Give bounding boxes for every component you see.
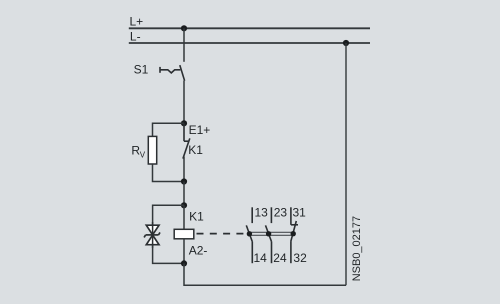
svg-text:NSB0_02177: NSB0_02177 [351, 216, 363, 281]
wire: suppressor branch bottom [153, 245, 184, 264]
svg-text:13: 13 [255, 206, 269, 220]
wire: contact to node [183, 157, 185, 182]
wire: suppressor branch top [153, 205, 184, 225]
wire: node to coil [183, 205, 185, 229]
contact K1 (NC break contact between E1+ and node) [183, 123, 190, 158]
svg-text:14: 14 [254, 251, 268, 265]
wire: coil to bottom node [183, 239, 185, 264]
svg-text:24: 24 [273, 251, 287, 265]
node: linkage dot contact 3 [291, 231, 296, 236]
wire: right return rail [345, 43, 347, 285]
node: junction dot (Rv bottom) [181, 178, 187, 184]
svg-text:E1+: E1+ [189, 123, 211, 137]
svg-text:A2-: A2- [189, 244, 208, 258]
power rail L+ [129, 27, 370, 29]
contact 31/32 (NC) [291, 207, 298, 263]
svg-text:23: 23 [274, 206, 288, 220]
mechanical linkage (dashed) from coil to contacts [197, 233, 247, 235]
svg-text:K1: K1 [188, 143, 203, 157]
svg-text:V: V [140, 151, 146, 160]
node: junction dot (coil bottom / A2-) [181, 260, 187, 266]
svg-text:31: 31 [293, 206, 307, 220]
switch S1 (momentary pushbutton, NO contact) [160, 65, 185, 81]
wire: node down to coil branch node [183, 182, 185, 206]
contact 23/24 (NO) [266, 207, 272, 263]
svg-text:32: 32 [293, 251, 307, 265]
wire: S1 to node E1+ [183, 81, 185, 124]
node: junction dot on L- at right rail [343, 40, 349, 46]
node: junction dot (coil branch top) [181, 202, 187, 208]
svg-text:L-: L- [130, 30, 141, 44]
node: linkage dot contact 1 [247, 231, 252, 236]
power rail L- [129, 42, 370, 44]
node: junction dot on L+ [181, 25, 187, 31]
relay coil K1 [174, 229, 194, 239]
svg-text:S1: S1 [134, 62, 149, 76]
svg-text:K1: K1 [189, 209, 204, 223]
wire: resistor to branch bottom [153, 164, 185, 182]
suppressor diode (bidirectional TVS) [144, 222, 160, 248]
resistor Rv [148, 136, 156, 164]
svg-text:L+: L+ [130, 14, 144, 28]
contact 13/14 (NO) [246, 207, 252, 263]
node: junction dot at E1+ branch [181, 120, 187, 126]
wire: branch top to resistor [153, 123, 185, 136]
wire: A2- node to bottom return [184, 263, 346, 285]
mechanical linkage bar (double line between contacts) [249, 231, 293, 233]
wire: L+ down to S1 [183, 28, 185, 62]
node: linkage dot contact 2 [266, 231, 271, 236]
